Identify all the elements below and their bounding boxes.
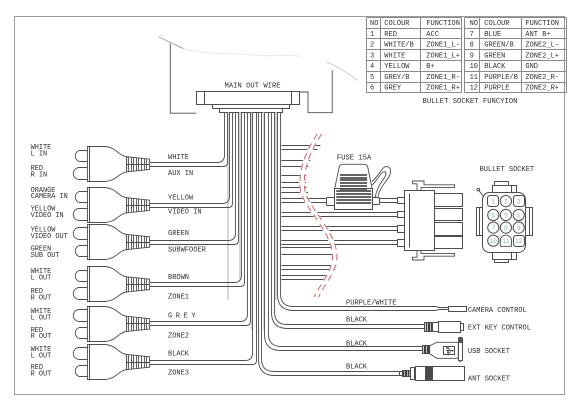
svg-text:GREEN: GREEN bbox=[484, 52, 505, 60]
main out wire connector tier 2 bbox=[213, 105, 290, 109]
svg-text:GREY: GREY bbox=[384, 85, 402, 93]
labels for RCA at y=205.3 bbox=[31, 187, 68, 220]
svg-text:6: 6 bbox=[370, 85, 374, 93]
label BLACK (ant) bbox=[346, 364, 368, 372]
svg-text:R OUT: R OUT bbox=[31, 295, 52, 303]
wire label BROWN/ZONE1 bbox=[168, 274, 189, 302]
connector RCA2 (dual RCA) bbox=[73, 188, 149, 223]
head unit chassis right edge bbox=[300, 70, 333, 112]
usb socket bbox=[423, 338, 463, 363]
labels for RCA at y=362.0 bbox=[31, 346, 52, 378]
svg-text:L OUT: L OUT bbox=[31, 314, 52, 322]
svg-text:10: 10 bbox=[470, 63, 478, 71]
svg-text:BLACK: BLACK bbox=[484, 63, 506, 71]
fuse holder body bbox=[335, 189, 373, 210]
svg-text:BLACK: BLACK bbox=[168, 350, 190, 358]
svg-text:12: 12 bbox=[515, 238, 523, 245]
label EXT KEY CONTROL bbox=[468, 324, 531, 332]
ext key control plug bbox=[425, 322, 464, 333]
wire BLACK (USB cable) bbox=[265, 112, 423, 350]
svg-text:R IN: R IN bbox=[31, 171, 48, 179]
label MAIN OUT WIRE bbox=[225, 83, 281, 91]
connector RCA5 (dual RCA) bbox=[73, 306, 149, 341]
svg-text:R OUT: R OUT bbox=[31, 370, 52, 378]
svg-text:L OUT: L OUT bbox=[31, 352, 52, 360]
camera control terminal bbox=[436, 307, 467, 312]
svg-text:ZONE2_R+: ZONE2_R+ bbox=[525, 85, 559, 93]
svg-text:GND: GND bbox=[525, 63, 538, 71]
svg-text:2: 2 bbox=[504, 198, 508, 205]
fuse wire end cap left bbox=[327, 198, 335, 206]
wire bundle shading bbox=[228, 112, 276, 330]
svg-text:AUX IN: AUX IN bbox=[168, 170, 193, 178]
svg-text:ZONE2: ZONE2 bbox=[168, 332, 189, 340]
svg-text:3: 3 bbox=[370, 52, 374, 60]
svg-text:BLACK: BLACK bbox=[346, 317, 368, 325]
svg-text:ZONE1_L+: ZONE1_L+ bbox=[426, 52, 460, 60]
svg-text:4: 4 bbox=[491, 212, 495, 219]
svg-text:COLOUR: COLOUR bbox=[384, 20, 410, 28]
bullet socket housing bbox=[477, 182, 533, 263]
svg-text:L IN: L IN bbox=[31, 150, 48, 158]
bullet socket pin 8 bbox=[500, 222, 511, 233]
svg-text:8: 8 bbox=[504, 225, 508, 232]
svg-text:ZONE2_R-: ZONE2_R- bbox=[525, 74, 559, 82]
svg-text:MAIN OUT WIRE: MAIN OUT WIRE bbox=[225, 83, 281, 91]
svg-text:BLUE: BLUE bbox=[484, 31, 501, 39]
svg-text:9: 9 bbox=[517, 225, 521, 232]
svg-text:BROWN: BROWN bbox=[168, 274, 189, 282]
head unit sketch outline bbox=[158, 37, 357, 81]
4 pin connector wire entries bbox=[398, 198, 405, 247]
label PURPLE/WHITE bbox=[346, 299, 396, 307]
svg-text:ANT B+: ANT B+ bbox=[525, 31, 550, 39]
head unit chassis left edge bbox=[170, 44, 196, 114]
break line right bbox=[304, 134, 337, 297]
bullet socket pin 7 bbox=[488, 222, 499, 233]
wire label GREY/ZONE2 bbox=[168, 313, 199, 341]
bullet socket pin 9 bbox=[513, 222, 524, 233]
svg-text:PURPLE/WHITE: PURPLE/WHITE bbox=[346, 299, 396, 307]
bullet socket pin 4 bbox=[488, 209, 499, 220]
svg-text:CAMERA IN: CAMERA IN bbox=[31, 193, 68, 201]
svg-text:4: 4 bbox=[370, 63, 374, 71]
wire YELLOW (VIDEO IN cable) bbox=[150, 112, 233, 207]
svg-text:GREY: GREY bbox=[168, 313, 199, 321]
svg-text:BLACK: BLACK bbox=[346, 364, 368, 372]
svg-text:BULLET SOCKET: BULLET SOCKET bbox=[480, 166, 535, 174]
svg-text:ZONE1: ZONE1 bbox=[168, 294, 189, 302]
wire BLACK (ANT cable) bbox=[259, 112, 400, 375]
label FUSE 15A bbox=[337, 155, 372, 163]
svg-text:ZONE2_L+: ZONE2_L+ bbox=[525, 52, 559, 60]
svg-text:SUBWFOOER: SUBWFOOER bbox=[168, 247, 207, 255]
svg-text:ANT SOCKET: ANT SOCKET bbox=[468, 376, 510, 384]
svg-text:BULLET SOCKET FUNCYION: BULLET SOCKET FUNCYION bbox=[423, 98, 518, 106]
svg-text:ZONE1_L-: ZONE1_L- bbox=[426, 42, 460, 50]
svg-text:7: 7 bbox=[470, 31, 474, 39]
main out wire connector tier 3 bbox=[220, 109, 283, 113]
svg-text:ZONE1_R-: ZONE1_R- bbox=[426, 74, 460, 82]
wire GREY (ZONE2 cable) bbox=[150, 112, 251, 325]
svg-text:ACC: ACC bbox=[426, 31, 439, 39]
svg-text:GREY/B: GREY/B bbox=[384, 74, 409, 82]
svg-text:1: 1 bbox=[370, 31, 374, 39]
svg-text:10: 10 bbox=[490, 238, 498, 245]
label ANT SOCKET bbox=[468, 376, 510, 384]
table grid bbox=[367, 18, 567, 93]
4 pin connector pins bbox=[435, 194, 463, 249]
svg-text:RED: RED bbox=[384, 31, 397, 39]
4 pin connector top latch bbox=[413, 181, 455, 191]
bullet socket pin 5 bbox=[500, 209, 511, 220]
svg-text:5: 5 bbox=[370, 74, 374, 82]
svg-text:VIDEO IN: VIDEO IN bbox=[168, 209, 202, 217]
svg-text:EXT KEY CONTROL: EXT KEY CONTROL bbox=[468, 324, 531, 332]
wire BLACK (ZONE3 cable) bbox=[150, 112, 257, 364]
fuse holder loop wire bbox=[372, 167, 391, 198]
wire GREEN (SUBWOOFER cable) bbox=[150, 112, 239, 244]
svg-text:VIDEO IN: VIDEO IN bbox=[31, 212, 64, 220]
4 pin connector bottom latch bbox=[413, 251, 455, 261]
label USB SOCKET bbox=[468, 348, 510, 356]
ant socket plug bbox=[400, 367, 465, 381]
svg-text:L OUT: L OUT bbox=[31, 275, 52, 283]
svg-text:9: 9 bbox=[470, 52, 474, 60]
svg-text:11: 11 bbox=[470, 74, 478, 82]
bullet socket keying pin bbox=[477, 188, 484, 197]
fuse supply wire bbox=[281, 199, 397, 203]
svg-text:PURPLE: PURPLE bbox=[484, 85, 509, 93]
label CAMERA CONTROL bbox=[468, 307, 527, 315]
svg-text:ZONE3: ZONE3 bbox=[168, 370, 189, 378]
svg-text:6: 6 bbox=[517, 212, 521, 219]
labels for RCA at y=284.4 bbox=[31, 268, 52, 302]
svg-text:USB SOCKET: USB SOCKET bbox=[468, 348, 510, 356]
wire label WHITE/AUX IN bbox=[168, 154, 193, 178]
svg-text:NO: NO bbox=[470, 20, 478, 28]
svg-text:PURPLE/B: PURPLE/B bbox=[484, 74, 518, 82]
svg-text:12: 12 bbox=[470, 85, 478, 93]
break line left bbox=[300, 134, 333, 297]
connector RCA1 (dual RCA) bbox=[73, 147, 149, 182]
connector RCA3 (dual RCA) bbox=[73, 225, 149, 260]
svg-text:WHITE: WHITE bbox=[168, 154, 189, 162]
labels for RCA at y=164.3 bbox=[31, 144, 52, 179]
svg-text:7: 7 bbox=[491, 225, 495, 232]
main out wire connector housing bbox=[197, 91, 300, 104]
svg-text:2: 2 bbox=[370, 42, 374, 50]
svg-text:3: 3 bbox=[517, 198, 521, 205]
fuse wire end cap right bbox=[373, 198, 380, 205]
svg-text:VIDEO OUT: VIDEO OUT bbox=[31, 233, 68, 241]
svg-text:FUNCTION: FUNCTION bbox=[525, 20, 559, 28]
svg-text:BLACK: BLACK bbox=[346, 341, 368, 349]
bullet socket pin 2 bbox=[500, 196, 511, 207]
svg-text:WHITE: WHITE bbox=[384, 52, 405, 60]
connector RCA6 (dual RCA) bbox=[73, 345, 149, 380]
table caption bbox=[423, 98, 518, 106]
wire WHITE (AUX IN cable) bbox=[150, 112, 228, 166]
wire label YELLOW/VIDEO IN bbox=[168, 194, 202, 216]
svg-text:GREEN: GREEN bbox=[168, 230, 189, 238]
svg-text:B+: B+ bbox=[426, 63, 434, 71]
label BULLET SOCKET bbox=[480, 166, 535, 174]
svg-text:ZONE1_R+: ZONE1_R+ bbox=[426, 85, 460, 93]
svg-text:YELLOW: YELLOW bbox=[168, 194, 194, 202]
svg-text:WHITE/B: WHITE/B bbox=[384, 42, 413, 50]
labels for RCA at y=242.0 bbox=[31, 227, 68, 260]
wire label BLACK/ZONE3 bbox=[168, 350, 190, 377]
svg-text:FUNCTION: FUNCTION bbox=[426, 20, 460, 28]
svg-text:ZONE2_L-: ZONE2_L- bbox=[525, 42, 559, 50]
svg-text:R OUT: R OUT bbox=[31, 333, 52, 341]
svg-text:11: 11 bbox=[502, 238, 510, 245]
wire BLACK (EXT KEY cable) bbox=[272, 112, 425, 328]
wire to 4 pin connector pin 4 bbox=[281, 241, 397, 245]
fuse holder top bbox=[335, 164, 372, 189]
bullet socket pin 6 bbox=[513, 209, 524, 220]
svg-text:NO: NO bbox=[370, 20, 378, 28]
svg-text:1: 1 bbox=[491, 198, 495, 205]
label BLACK (ext key) bbox=[346, 317, 368, 325]
label BLACK (usb) bbox=[346, 341, 368, 349]
right stub wires (cut at break) bbox=[281, 146, 337, 280]
svg-text:8: 8 bbox=[470, 42, 474, 50]
svg-text:FUSE 15A: FUSE 15A bbox=[337, 155, 372, 163]
bullet socket pin 10 bbox=[488, 235, 499, 246]
svg-text:YELLOW: YELLOW bbox=[384, 63, 410, 71]
svg-text:GREEN/B: GREEN/B bbox=[484, 42, 513, 50]
connector RCA4 (dual RCA) bbox=[73, 267, 149, 302]
wire label GREEN/SUBWFOOER bbox=[168, 230, 207, 255]
wire to 4 pin connector pin 3 bbox=[281, 227, 397, 231]
svg-text:5: 5 bbox=[504, 212, 508, 219]
bullet socket pin 12 bbox=[514, 236, 525, 247]
4 pin connector body bbox=[405, 191, 435, 251]
wire BROWN (ZONE1 cable) bbox=[150, 112, 245, 286]
wire PURPLE/WHITE (CAMERA cable) bbox=[278, 112, 437, 310]
bullet socket pin 1 bbox=[488, 196, 499, 207]
break mask bbox=[302, 134, 335, 297]
wire to 4 pin connector pin 2 bbox=[281, 213, 397, 217]
bullet socket pin 3 bbox=[514, 196, 525, 207]
svg-text:COLOUR: COLOUR bbox=[484, 20, 510, 28]
svg-text:SUB OUT: SUB OUT bbox=[31, 252, 60, 260]
svg-text:CAMERA CONTROL: CAMERA CONTROL bbox=[468, 307, 527, 315]
bullet socket pin 11 bbox=[500, 235, 511, 246]
table text bbox=[370, 20, 559, 93]
labels for RCA at y=323.9 bbox=[31, 308, 52, 341]
